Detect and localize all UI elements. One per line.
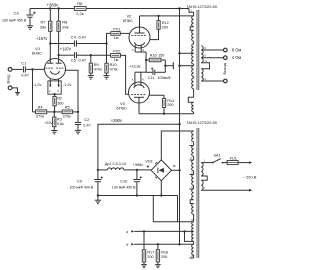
svg-text:Др1 2,5-0,14: Др1 2,5-0,14: [105, 162, 126, 166]
svg-text:~ 220 В: ~ 220 В: [243, 174, 257, 179]
svg-text:8 Ом: 8 Ом: [232, 48, 242, 53]
svg-text:270к: 270к: [36, 115, 44, 119]
svg-text:300: 300: [57, 101, 63, 105]
svg-text:C4: C4: [71, 34, 77, 39]
svg-text:C3: C3: [14, 11, 20, 16]
svg-text:200: 200: [147, 255, 153, 259]
svg-text:200: 200: [167, 103, 173, 107]
svg-text:С11: С11: [148, 76, 155, 80]
svg-text:200: 200: [161, 255, 167, 259]
svg-text:39к: 39к: [62, 25, 68, 30]
svg-text:+13,3v: +13,3v: [129, 65, 141, 69]
svg-text:C9: C9: [77, 179, 82, 183]
svg-text:100 мкФ 400 В: 100 мкФ 400 В: [70, 185, 94, 189]
svg-text:SA1: SA1: [214, 153, 221, 157]
svg-text:-1,2v: -1,2v: [33, 83, 42, 87]
svg-text:R14: R14: [167, 99, 174, 103]
svg-text:0,47: 0,47: [79, 58, 87, 63]
svg-text:а: а: [126, 230, 128, 234]
svg-text:R16: R16: [150, 54, 157, 58]
svg-text:R5: R5: [65, 105, 70, 109]
svg-text:C2: C2: [84, 117, 89, 122]
svg-text:C1: C1: [21, 61, 26, 66]
svg-text:ТАН3-127/220-50: ТАН3-127/220-50: [186, 120, 218, 125]
svg-text:470к: 470к: [94, 68, 102, 72]
svg-text:РV1: РV1: [113, 27, 120, 31]
svg-text:-1,2v: -1,2v: [63, 83, 72, 87]
svg-text:+383v: +383v: [47, 2, 60, 7]
svg-text:1м: 1м: [114, 36, 119, 40]
svg-text:100 мкФ 450 В: 100 мкФ 450 В: [112, 185, 136, 189]
svg-text:R6: R6: [77, 1, 83, 6]
svg-text:0,47: 0,47: [83, 123, 91, 128]
svg-text:200: 200: [162, 25, 168, 29]
svg-text:R9: R9: [94, 63, 99, 67]
svg-text:2,2к: 2,2к: [76, 11, 84, 16]
svg-text:+197v: +197v: [60, 47, 72, 52]
svg-text:470к: 470к: [110, 68, 118, 72]
svg-text:C5: C5: [71, 58, 76, 63]
svg-text:R17: R17: [147, 250, 154, 254]
svg-text:VD1: VD1: [145, 160, 152, 164]
svg-text:+22v: +22v: [44, 121, 52, 125]
svg-text:100мкФ: 100мкФ: [158, 76, 171, 80]
svg-text:РV2: РV2: [113, 49, 120, 53]
svg-text:0,47: 0,47: [79, 34, 87, 39]
svg-text:FU1: FU1: [230, 156, 237, 160]
svg-text:R18: R18: [161, 250, 168, 254]
svg-text:1м: 1м: [114, 58, 119, 62]
svg-text:Выход: Выход: [223, 62, 227, 74]
svg-text:0,47: 0,47: [21, 73, 29, 78]
svg-text:R3: R3: [57, 117, 62, 121]
svg-text:4 Ом: 4 Ом: [232, 55, 242, 60]
svg-text:+308v: +308v: [133, 163, 144, 167]
svg-text:ТАН3-127/220-50: ТАН3-127/220-50: [186, 4, 218, 9]
svg-text:6Н9С: 6Н9С: [32, 50, 42, 55]
svg-text:100 мкФ 450 В: 100 мкФ 450 В: [2, 18, 27, 22]
svg-text:б: б: [126, 243, 128, 247]
svg-text:+290v: +290v: [111, 118, 123, 123]
svg-text:6П6С: 6П6С: [123, 18, 133, 23]
svg-text:270к: 270к: [63, 115, 71, 119]
svg-text:Вход: Вход: [6, 74, 11, 84]
svg-text:R12: R12: [162, 21, 169, 25]
svg-text:R4: R4: [38, 105, 43, 109]
svg-text:R10: R10: [110, 63, 117, 67]
svg-text:+197v: +197v: [36, 36, 48, 41]
svg-text:С10: С10: [120, 179, 127, 183]
svg-text:150: 150: [158, 54, 164, 58]
svg-text:5,6к: 5,6к: [57, 122, 64, 126]
svg-text:R2: R2: [57, 97, 62, 101]
svg-text:39к: 39к: [40, 25, 46, 30]
svg-text:6П6С: 6П6С: [117, 106, 127, 111]
